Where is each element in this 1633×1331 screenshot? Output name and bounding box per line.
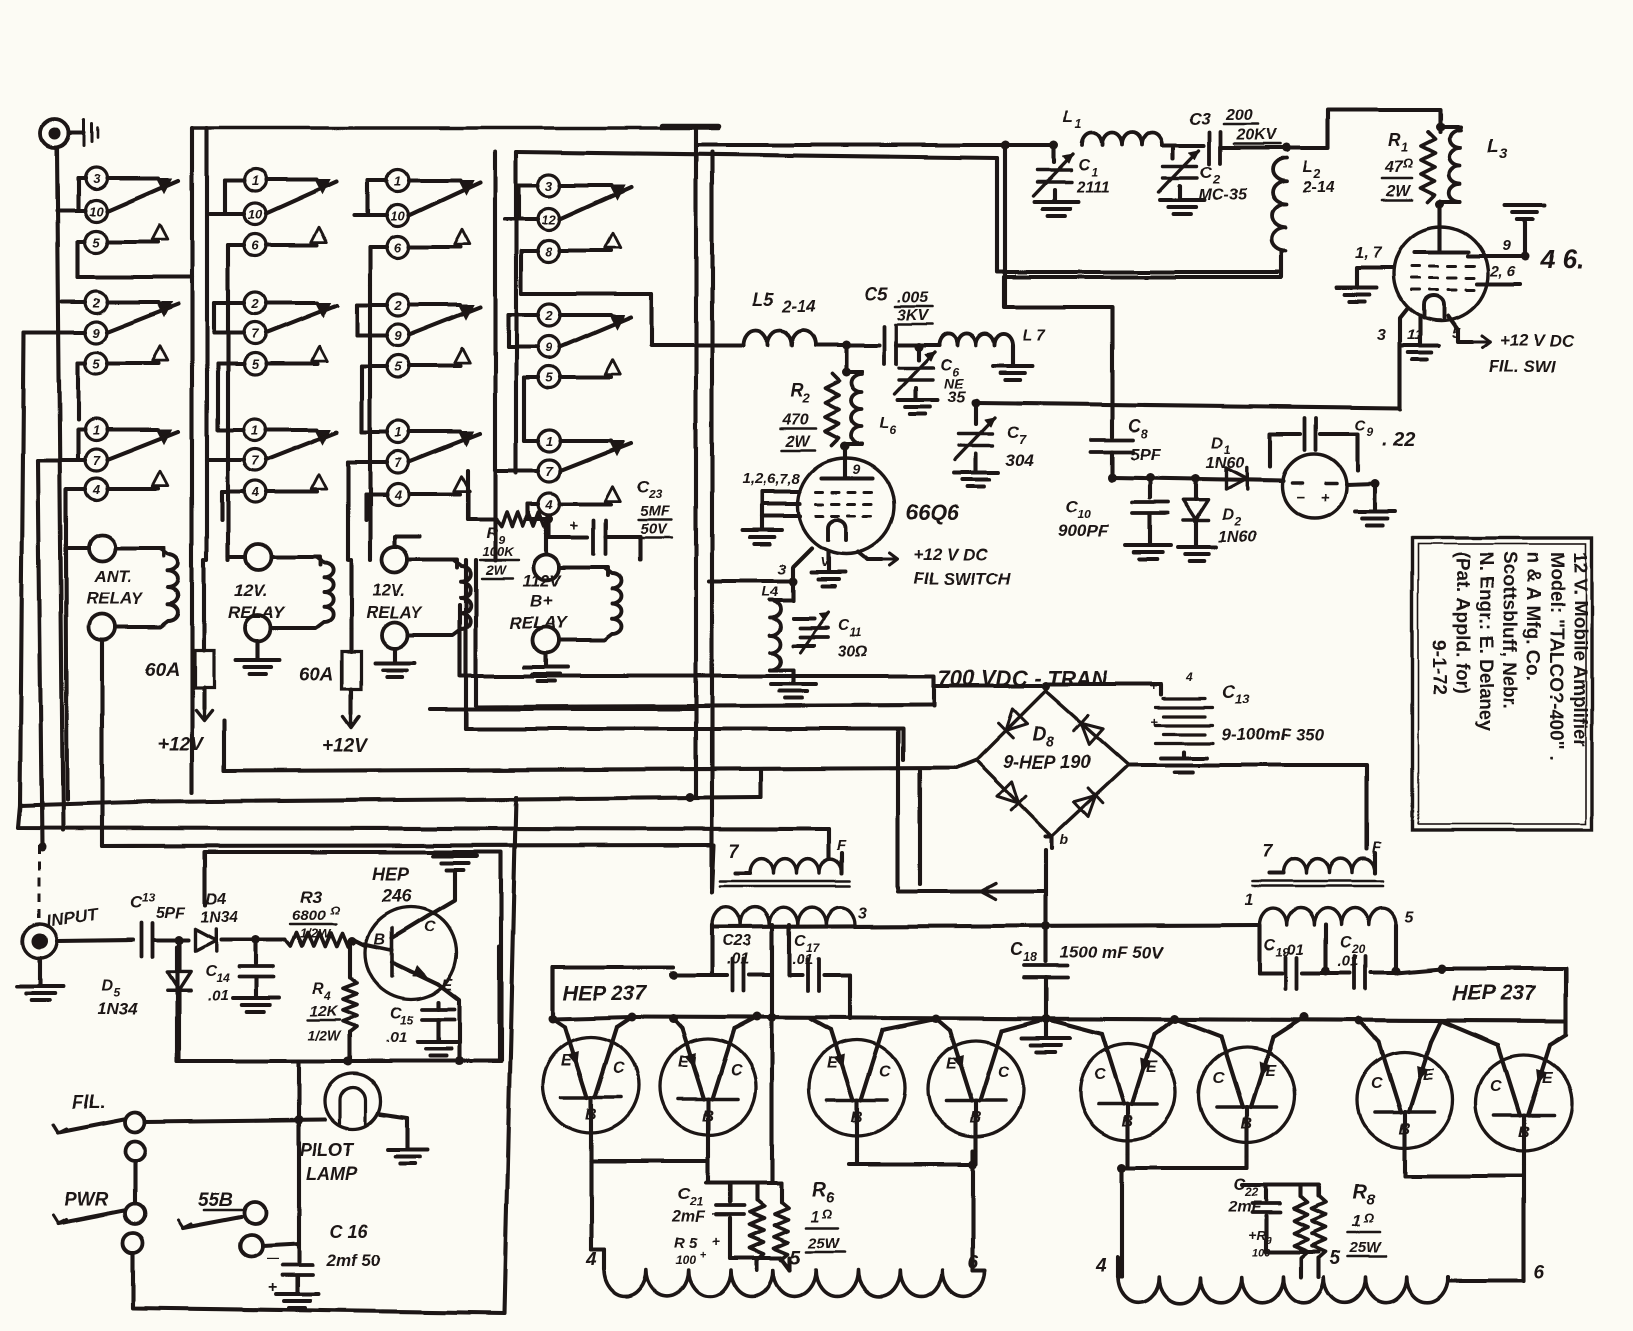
bridge diode d — [1073, 788, 1102, 817]
capacitor C13 — [1150, 678, 1325, 772]
wire bridge bottom — [1052, 831, 1069, 848]
svg-text:12K: 12K — [310, 1003, 339, 1020]
capacitor C3 — [1189, 107, 1280, 164]
wire — [1046, 836, 1052, 926]
svg-text:2W: 2W — [785, 433, 812, 450]
svg-text:20KV: 20KV — [1235, 127, 1277, 144]
svg-text:INPUT: INPUT — [45, 904, 100, 930]
svg-text:L4: L4 — [762, 583, 779, 599]
wire — [508, 315, 538, 347]
svg-text:6: 6 — [1534, 1262, 1545, 1283]
label 700VDC-TRAN — [938, 666, 1109, 691]
wire meter out — [1346, 479, 1395, 526]
svg-text:6800: 6800 — [292, 907, 326, 924]
svg-text:D: D — [102, 977, 114, 994]
relay K4 112V B+ RELAY — [510, 554, 621, 653]
wire Q6 leads — [1046, 1015, 1179, 1035]
svg-text:2: 2 — [250, 296, 259, 311]
svg-text:1: 1 — [1245, 892, 1254, 909]
svg-text:R: R — [1256, 1228, 1266, 1243]
svg-text:9: 9 — [394, 328, 402, 343]
svg-text:FIL SWITCH: FIL SWITCH — [914, 569, 1012, 588]
label 46 — [1539, 244, 1583, 274]
wire preamp box — [205, 852, 501, 1061]
label HEP237 right — [1441, 969, 1566, 1035]
wire — [549, 294, 652, 345]
svg-text:10: 10 — [89, 204, 104, 219]
svg-text:+: + — [1248, 1227, 1256, 1243]
svg-text:−: − — [1296, 489, 1305, 506]
svg-text:50V: 50V — [640, 521, 669, 538]
svg-text:FIL. SWI: FIL. SWI — [1488, 357, 1556, 376]
winding T1 out — [591, 1250, 985, 1296]
svg-text:1: 1 — [810, 1207, 819, 1226]
label 5b — [1330, 1248, 1341, 1269]
svg-text:ANT.: ANT. — [93, 567, 132, 586]
svg-text:2-14: 2-14 — [1301, 179, 1334, 196]
svg-text:C: C — [838, 617, 850, 634]
wire — [495, 152, 538, 560]
wire — [841, 442, 850, 463]
svg-text:C: C — [1010, 940, 1024, 960]
svg-text:RELAY: RELAY — [228, 603, 286, 622]
svg-text:2-14: 2-14 — [781, 297, 817, 316]
svg-text:E: E — [678, 1054, 690, 1071]
svg-text:+: + — [1150, 714, 1158, 729]
capacitor C9 .22 — [1270, 417, 1415, 470]
svg-text:10: 10 — [248, 207, 263, 222]
svg-text:B: B — [374, 931, 386, 948]
label C1 — [1075, 157, 1109, 196]
svg-text:4: 4 — [91, 482, 100, 497]
wire main rail — [632, 1017, 1566, 1021]
svg-text:R: R — [1352, 1181, 1367, 1203]
svg-text:3: 3 — [778, 561, 787, 578]
transistor Q4 HEP237 — [809, 1030, 905, 1150]
svg-text:2, 6: 2, 6 — [1489, 263, 1516, 280]
svg-text:6: 6 — [394, 240, 402, 255]
wire — [527, 519, 549, 554]
transistor Q8 HEP237 — [1357, 1042, 1453, 1162]
winding T2 out — [1118, 1258, 1448, 1303]
svg-text:5: 5 — [1330, 1248, 1341, 1269]
capacitor C19 .01 — [1260, 937, 1331, 989]
fuse F2 60A — [299, 628, 368, 757]
svg-text:1N60: 1N60 — [1218, 529, 1256, 546]
svg-text:9: 9 — [1502, 237, 1511, 254]
svg-text:9: 9 — [545, 340, 553, 355]
svg-text:900PF: 900PF — [1058, 521, 1109, 540]
svg-text:5: 5 — [545, 370, 553, 385]
svg-text:10: 10 — [391, 208, 406, 223]
svg-text:12: 12 — [542, 212, 557, 227]
capacitor C7 — [954, 403, 1034, 487]
wire box relay right edge — [694, 128, 698, 709]
wire bus — [466, 560, 903, 760]
svg-text:6: 6 — [968, 1252, 979, 1273]
inductor L4 — [762, 581, 815, 698]
svg-text:+: + — [570, 517, 579, 534]
svg-text:D: D — [1222, 507, 1234, 524]
svg-text:2: 2 — [1212, 172, 1221, 187]
svg-text:9: 9 — [1366, 425, 1373, 439]
switch FIL — [53, 1092, 145, 1161]
wire — [1266, 1252, 1319, 1277]
ground J2 — [17, 958, 63, 1000]
label pin 2,6 — [1489, 263, 1516, 280]
svg-text:2: 2 — [91, 295, 100, 310]
wire — [355, 180, 387, 215]
transformer T1 primary — [720, 837, 850, 886]
svg-text:200: 200 — [1225, 107, 1253, 124]
tube V1 left pins — [742, 492, 800, 544]
svg-text:. 22: . 22 — [1382, 429, 1415, 451]
svg-text:7: 7 — [1262, 841, 1273, 861]
svg-text:E: E — [1265, 1062, 1277, 1079]
capacitor C22 — [1227, 1175, 1280, 1252]
wire — [57, 209, 85, 213]
wire bus 888 — [712, 845, 1046, 899]
wire — [468, 471, 496, 519]
capacitor C13b 5PF — [130, 891, 187, 957]
svg-text:4 6.: 4 6. — [1539, 244, 1583, 274]
pin 11 ground — [1401, 316, 1439, 360]
svg-text:2W: 2W — [485, 562, 507, 577]
wire Q4 leads — [811, 1015, 941, 1031]
resistor R9 — [480, 512, 554, 578]
svg-text:1/2W: 1/2W — [308, 1027, 342, 1043]
svg-text:5: 5 — [92, 235, 100, 250]
svg-text:R: R — [486, 525, 498, 542]
tube V1 pin11 — [811, 552, 845, 586]
svg-text:+12V: +12V — [158, 734, 204, 755]
svg-text:11: 11 — [850, 625, 863, 639]
wire Q1 collector — [428, 880, 455, 916]
capacitor C6 — [895, 347, 967, 414]
wire — [1448, 1277, 1524, 1281]
svg-text:2111: 2111 — [1075, 179, 1109, 196]
svg-text:304: 304 — [1005, 451, 1034, 470]
relay contacts bank1 group1 — [85, 167, 178, 253]
wire — [706, 1183, 781, 1202]
svg-text:2W: 2W — [1385, 183, 1412, 200]
svg-text:D: D — [1212, 435, 1224, 452]
wire — [78, 363, 85, 420]
bridge diode b — [997, 781, 1026, 810]
svg-text:6: 6 — [826, 1189, 835, 1206]
svg-text:3KV: 3KV — [897, 307, 929, 324]
wire — [973, 1268, 985, 1272]
svg-text:9: 9 — [1266, 1236, 1272, 1247]
svg-text:HEP: HEP — [372, 864, 410, 884]
svg-text:7: 7 — [545, 464, 553, 479]
wire Q7 leads — [1174, 1013, 1309, 1038]
wire — [153, 936, 188, 945]
label PILOT LAMP — [300, 1140, 358, 1184]
wire — [1118, 1275, 1122, 1279]
svg-text:C: C — [1200, 163, 1213, 182]
svg-text:8: 8 — [1141, 426, 1149, 441]
wire hep246 bottom — [177, 947, 499, 1061]
svg-text:C: C — [879, 1063, 891, 1080]
svg-text:B+: B+ — [530, 591, 552, 610]
svg-text:E: E — [1542, 1070, 1554, 1087]
svg-text:8: 8 — [1046, 733, 1055, 750]
wire — [896, 343, 939, 352]
svg-text:C: C — [1078, 157, 1090, 174]
svg-text:C23: C23 — [722, 933, 751, 950]
ground K4 — [524, 653, 568, 681]
wire — [1005, 145, 1282, 307]
wire — [210, 180, 244, 214]
svg-text:8: 8 — [1366, 1191, 1375, 1208]
svg-text:9: 9 — [852, 461, 860, 477]
svg-text:E: E — [561, 1052, 573, 1069]
capacitor C18 — [1010, 926, 1165, 1052]
wire — [362, 366, 387, 432]
meter M1 — [1282, 454, 1346, 518]
svg-text:C: C — [1213, 1070, 1225, 1087]
wire — [221, 936, 285, 945]
svg-text:C: C — [730, 1062, 742, 1079]
svg-text:HEP 237: HEP 237 — [563, 982, 648, 1005]
wire — [349, 560, 353, 628]
wire — [348, 937, 367, 947]
wire — [1436, 127, 1445, 228]
svg-text:4: 4 — [585, 1250, 597, 1271]
svg-text:L 7: L 7 — [1023, 327, 1047, 344]
transistor Q9 HEP237 — [1476, 1045, 1572, 1165]
wire bus — [827, 829, 831, 858]
svg-text:E: E — [946, 1056, 958, 1073]
wire bus left — [20, 332, 761, 806]
svg-text:C: C — [794, 933, 806, 950]
svg-text:+: + — [1150, 678, 1158, 693]
svg-text:25W: 25W — [807, 1235, 841, 1252]
wire — [78, 242, 192, 277]
ground K2 — [236, 641, 280, 674]
label pins 1,2,6,7,8 — [742, 471, 801, 488]
svg-text:9-1-72: 9-1-72 — [1428, 640, 1449, 695]
relay contacts bank3 group1 — [387, 169, 480, 258]
wire — [505, 185, 538, 219]
wire — [460, 605, 1045, 888]
svg-text:6: 6 — [251, 238, 259, 253]
wire — [0, 0, 1, 1]
fuse F1 60A — [145, 630, 214, 755]
svg-text:C: C — [424, 919, 436, 936]
jack J2 INPUT — [23, 904, 100, 958]
svg-text:9-HEP 190: 9-HEP 190 — [1003, 752, 1090, 772]
label 5 — [790, 1248, 801, 1269]
wire — [357, 305, 387, 335]
transistor Q7 HEP237 — [1199, 1037, 1295, 1157]
transformer T1 secondary — [712, 905, 867, 1183]
inductor L6 — [846, 372, 897, 444]
svg-text:C: C — [998, 1064, 1010, 1081]
svg-text:12V.: 12V. — [234, 581, 267, 600]
svg-text:n & A Mfg. Co.: n & A Mfg. Co. — [1522, 552, 1543, 680]
svg-text:15: 15 — [400, 1013, 414, 1027]
svg-text:R 5: R 5 — [674, 1235, 698, 1252]
svg-text:60A: 60A — [299, 664, 334, 685]
info box — [1412, 538, 1592, 830]
transistor Q5 HEP237 — [928, 1031, 1024, 1151]
svg-text:60A: 60A — [145, 660, 180, 681]
tube V2 46 — [1394, 227, 1488, 321]
wire C8 feed — [1004, 277, 1112, 437]
svg-text:4: 4 — [250, 485, 259, 500]
wire bus — [686, 709, 697, 802]
wire — [133, 1161, 137, 1204]
antenna connector J1 — [41, 119, 98, 147]
wire — [710, 845, 714, 888]
svg-text:R: R — [812, 1179, 827, 1201]
capacitor C23 — [549, 477, 672, 560]
svg-text:7: 7 — [92, 453, 100, 468]
relay contacts bank4 group1 — [538, 174, 631, 262]
svg-text:1: 1 — [1091, 165, 1098, 179]
wire — [788, 1258, 792, 1270]
wire — [1221, 144, 1291, 153]
label pin f — [1185, 669, 1193, 683]
wire bus x518 — [504, 797, 516, 1313]
svg-text:L: L — [1063, 107, 1073, 126]
info text — [1428, 552, 1590, 761]
svg-text:5: 5 — [92, 356, 100, 371]
wire — [842, 345, 851, 377]
wire — [295, 1061, 304, 1244]
wire — [100, 640, 104, 846]
svg-text:C3: C3 — [1189, 109, 1211, 128]
transistor Q3 HEP237 — [660, 1029, 756, 1149]
wire bus — [224, 720, 976, 771]
resistor R9b — [1252, 1196, 1308, 1259]
wire Q5 leads — [936, 1015, 1051, 1032]
svg-text:47: 47 — [1384, 159, 1404, 176]
svg-text:5: 5 — [1404, 909, 1414, 926]
tube V1 internals — [816, 461, 872, 540]
svg-text:+: + — [1320, 489, 1329, 506]
svg-text:14: 14 — [216, 971, 230, 985]
bridge diode c — [1074, 715, 1103, 744]
wire — [57, 147, 63, 830]
svg-text:5: 5 — [251, 357, 259, 372]
svg-text:2: 2 — [801, 390, 810, 405]
svg-text:Ω: Ω — [1402, 156, 1413, 171]
svg-text:Ω: Ω — [821, 1206, 832, 1221]
svg-text:3: 3 — [92, 171, 100, 186]
wire — [218, 364, 244, 430]
wire top bus right — [696, 141, 1059, 150]
wire pin9 — [1468, 205, 1545, 261]
wire Q1 emitter — [438, 984, 464, 1066]
svg-text:35: 35 — [948, 389, 967, 406]
svg-text:+12V: +12V — [322, 736, 368, 757]
svg-text:5MF: 5MF — [640, 503, 671, 520]
svg-text:7: 7 — [251, 326, 259, 341]
wire bridge right — [1128, 765, 1367, 849]
resistor R2 — [780, 374, 839, 450]
relay contacts bank2 group3 — [244, 419, 337, 503]
wire — [974, 1151, 978, 1164]
relay contacts bank1 group2 — [85, 291, 178, 374]
wire — [190, 128, 194, 793]
wire — [202, 560, 206, 630]
svg-text:PILOT: PILOT — [300, 1140, 355, 1160]
resistor R4 — [308, 941, 357, 1066]
svg-text:LAMP: LAMP — [306, 1164, 358, 1184]
wire pin2 — [1477, 282, 1520, 286]
svg-text:1: 1 — [394, 173, 401, 188]
wire detector rail — [1108, 474, 1284, 484]
wire — [849, 1150, 978, 1270]
relay contacts bank2 group2 — [244, 292, 337, 375]
relay contacts bank4 group3 — [538, 430, 631, 515]
wire — [222, 492, 244, 520]
svg-text:C: C — [940, 357, 952, 374]
inductor L7 — [939, 327, 1047, 345]
svg-text:18: 18 — [1023, 950, 1038, 965]
resistor R5 — [674, 1200, 764, 1267]
svg-text:+: + — [712, 1233, 720, 1249]
svg-text:—: — — [266, 1251, 278, 1265]
svg-text:R3: R3 — [300, 887, 322, 906]
svg-text:4: 4 — [323, 989, 331, 1003]
svg-text:FIL.: FIL. — [72, 1092, 106, 1113]
svg-text:1: 1 — [545, 434, 552, 449]
svg-text:PWR: PWR — [64, 1190, 109, 1211]
svg-text:+12 V DC: +12 V DC — [1500, 331, 1575, 350]
relay K1 ANT.RELAY — [86, 535, 178, 640]
svg-text:246: 246 — [381, 886, 413, 906]
wire — [516, 152, 1281, 473]
wire bus — [102, 845, 712, 846]
capacitor C17 .01 — [789, 933, 850, 1019]
svg-text:1: 1 — [1075, 116, 1082, 131]
relay contacts bank4 group2 — [538, 304, 631, 388]
svg-text:+: + — [700, 1249, 706, 1261]
capacitor C5 — [864, 284, 932, 364]
svg-text:Model: "TALCO?-400" .: Model: "TALCO?-400" . — [1546, 552, 1567, 761]
svg-text:E: E — [827, 1055, 839, 1072]
svg-text:5: 5 — [394, 359, 402, 374]
wire — [175, 947, 179, 1061]
inductor L1 — [1063, 107, 1162, 145]
wire — [1045, 684, 1161, 694]
svg-text:R: R — [1388, 130, 1401, 150]
wire pin1 — [1337, 268, 1394, 302]
svg-text:2: 2 — [544, 308, 553, 323]
svg-text:Scottsbluff, Nebr.: Scottsbluff, Nebr. — [1499, 552, 1520, 709]
wire — [24, 302, 85, 332]
wire Q3 leads — [669, 1013, 762, 1030]
svg-text:4: 4 — [544, 497, 553, 512]
rectifier D8 bridge — [0, 0, 1, 1]
wire — [366, 494, 387, 520]
wire — [228, 545, 245, 557]
ground K3 — [375, 648, 415, 677]
wire — [18, 806, 829, 829]
svg-text:25W: 25W — [1349, 1239, 1383, 1256]
relay contacts bank3 group2 — [387, 294, 480, 377]
diode D1 1N60 — [1206, 435, 1247, 490]
wire — [1286, 110, 1445, 148]
wire shield dash — [38, 845, 41, 924]
svg-text:1,2,6,7,8: 1,2,6,7,8 — [742, 471, 801, 488]
wire — [521, 251, 549, 294]
wire rail left — [553, 1017, 632, 1019]
